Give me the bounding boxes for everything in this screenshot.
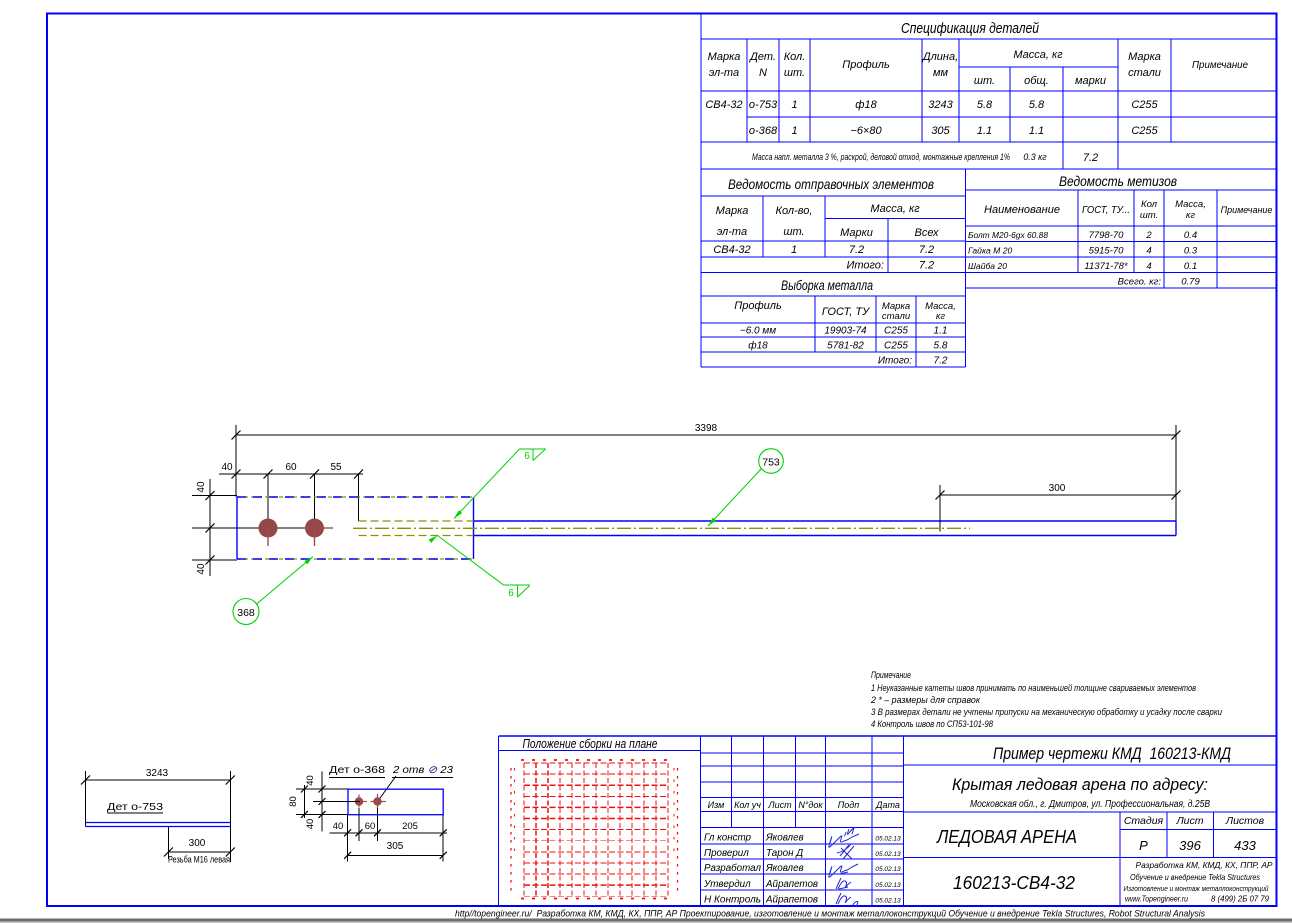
svg-text:−6×80: −6×80	[850, 125, 882, 137]
svg-text:Болт М20-6gх 60.88: Болт М20-6gх 60.88	[968, 230, 1048, 240]
svg-text:5781-82: 5781-82	[827, 341, 864, 352]
svg-text:Примечание: Примечание	[1192, 59, 1248, 71]
svg-text:7798-70: 7798-70	[1089, 230, 1125, 241]
svg-text:эл-та: эл-та	[709, 67, 739, 79]
svg-text:3398: 3398	[695, 423, 718, 434]
bolt hole 1 (main view)	[259, 519, 278, 547]
svg-text:433: 433	[1234, 838, 1256, 853]
svg-text:−6.0 мм: −6.0 мм	[740, 326, 776, 337]
svg-text:Тарон Д: Тарон Д	[766, 848, 803, 859]
title block: project titles	[936, 744, 1231, 893]
svg-text:Масса, кг: Масса, кг	[1013, 49, 1063, 61]
svg-text:www.Topengineer.ru: www.Topengineer.ru	[1125, 895, 1188, 904]
svg-text:Профиль: Профиль	[842, 59, 890, 71]
svg-text:6: 6	[508, 588, 514, 599]
svg-text:4: 4	[1146, 246, 1151, 257]
svg-text:Н Контроль: Н Контроль	[704, 895, 761, 906]
svg-text:40: 40	[221, 462, 233, 473]
svg-text:Утвердил: Утвердил	[703, 879, 751, 890]
title block: signatures	[829, 828, 859, 907]
bolt hole 2 (main view)	[305, 519, 333, 547]
svg-text:7.2: 7.2	[934, 356, 948, 367]
rod o-753 hidden lines inside plate	[359, 521, 474, 536]
red framing plan grid	[511, 760, 678, 899]
svg-text:5.8: 5.8	[1029, 99, 1045, 111]
svg-text:305: 305	[387, 841, 404, 852]
svg-text:Марка: Марка	[1128, 51, 1161, 63]
svg-text:0.3: 0.3	[1184, 246, 1198, 257]
svg-text:6: 6	[524, 451, 530, 462]
svg-text:40: 40	[305, 819, 316, 830]
svg-text:Профиль: Профиль	[734, 300, 782, 312]
svg-text:3243: 3243	[928, 99, 953, 111]
svg-text:Дет.: Дет.	[748, 51, 776, 63]
svg-text:1.1: 1.1	[1029, 125, 1044, 137]
svg-text:Р: Р	[1139, 838, 1148, 853]
title block: company info	[1124, 860, 1273, 904]
svg-text:1.1: 1.1	[977, 125, 992, 137]
svg-text:Масса, кг: Масса, кг	[870, 203, 920, 215]
svg-text:4: 4	[1146, 261, 1151, 272]
svg-text:Наименование: Наименование	[984, 204, 1060, 216]
svg-text:0.4: 0.4	[1184, 230, 1197, 241]
title block grid	[499, 736, 1277, 906]
detail o-368: hole 2	[371, 794, 387, 808]
detail o-368: holes note 2 отв 23	[378, 764, 454, 802]
detail o-368: label	[329, 764, 385, 778]
svg-text:эл-та: эл-та	[717, 226, 747, 238]
svg-text:N: N	[759, 67, 767, 79]
svg-text:40: 40	[196, 481, 207, 493]
svg-text:Длина,: Длина,	[921, 51, 958, 63]
detail o-368: dimension 80 and 40/40	[288, 771, 360, 831]
detail o-753: label	[107, 801, 163, 813]
center line of rod	[353, 527, 970, 529]
detail o-753: dimension 300 thread	[164, 827, 235, 859]
detail o-368: hole 1	[354, 795, 367, 808]
svg-text:Дет о-753: Дет о-753	[107, 801, 163, 813]
notes text	[870, 670, 1222, 729]
svg-text:Шайба 20: Шайба 20	[968, 261, 1007, 271]
svg-text:Гайка М 20: Гайка М 20	[968, 246, 1012, 256]
svg-text:Кол-во,: Кол-во,	[776, 205, 813, 217]
svg-text:шт.: шт.	[974, 75, 995, 87]
svg-text:стали: стали	[882, 311, 911, 322]
svg-text:40: 40	[333, 821, 344, 832]
svg-text:Гл констр: Гл констр	[704, 833, 752, 844]
svg-text:160213-СВ4-32: 160213-СВ4-32	[953, 872, 1076, 893]
svg-text:ГОСТ, ТУ...: ГОСТ, ТУ...	[1082, 204, 1130, 216]
svg-text:Резьба М16 левая: Резьба М16 левая	[168, 855, 230, 866]
svg-text:Дет о-368: Дет о-368	[329, 764, 385, 776]
svg-text:С255: С255	[1131, 99, 1158, 111]
svg-text:Итого:: Итого:	[878, 356, 912, 367]
position balloon 368	[233, 557, 313, 625]
svg-text:0.1: 0.1	[1184, 261, 1197, 272]
svg-text:стали: стали	[1128, 67, 1161, 79]
svg-text:2: 2	[1145, 230, 1152, 241]
svg-text:Кол: Кол	[1141, 199, 1158, 210]
svg-text:Всего. кг:: Всего. кг:	[1118, 277, 1162, 288]
svg-text:кг: кг	[936, 311, 945, 322]
svg-text:мм: мм	[933, 67, 949, 79]
svg-text:60: 60	[285, 462, 297, 473]
svg-text:Ведомость отправочных элементо: Ведомость отправочных элементов	[728, 176, 934, 192]
table: Выборка металла text	[734, 278, 956, 367]
detail o-368: plate outline	[348, 789, 443, 815]
svg-text:Примечание: Примечание	[871, 670, 911, 680]
title block: signature rows	[703, 833, 901, 906]
svg-text:2 отв ⊘ 23: 2 отв ⊘ 23	[392, 764, 453, 776]
svg-text:300: 300	[1049, 483, 1066, 494]
svg-text:5915-70: 5915-70	[1089, 246, 1125, 257]
svg-text:1 Неуказанные катеты швов при: 1 Неуказанные катеты швов принимать по н…	[871, 683, 1196, 693]
svg-text:11371-78*: 11371-78*	[1084, 261, 1127, 272]
svg-text:Айрапетов: Айрапетов	[765, 879, 818, 890]
svg-text:205: 205	[402, 821, 418, 832]
table: Выборка металла grid	[701, 296, 966, 367]
svg-text:Разработал: Разработал	[704, 863, 761, 874]
svg-text:05.02.13: 05.02.13	[875, 836, 901, 843]
svg-text:7.2: 7.2	[849, 244, 864, 256]
svg-text:7.2: 7.2	[1083, 152, 1098, 164]
svg-text:Крытая ледовая арена по адресу: Крытая ледовая арена по адресу:	[952, 775, 1208, 794]
table: Ведомость отправочных элементов text	[713, 176, 939, 272]
svg-text:Положение сборки на плане: Положение сборки на плане	[523, 737, 658, 751]
plate o-368 outline (main view)	[237, 497, 474, 559]
svg-text:7.2: 7.2	[919, 244, 934, 256]
svg-text:Айрапетов: Айрапетов	[765, 895, 818, 906]
svg-text:0.79: 0.79	[1181, 277, 1200, 288]
svg-text:Подп: Подп	[838, 800, 860, 810]
svg-text:Проверил: Проверил	[704, 848, 749, 859]
position balloon 753	[708, 449, 783, 526]
rod o-753 solid outline	[474, 521, 1177, 536]
svg-text:о-368: о-368	[749, 125, 778, 137]
svg-text:300: 300	[189, 838, 206, 849]
svg-text:3243: 3243	[146, 768, 169, 779]
svg-text:Выборка металла: Выборка металла	[781, 278, 873, 293]
svg-text:2 * – размеры для справок: 2 * – размеры для справок	[870, 695, 981, 705]
svg-text:общ.: общ.	[1024, 75, 1049, 87]
svg-text:ГОСТ, ТУ: ГОСТ, ТУ	[822, 306, 870, 318]
svg-text:4 Контроль швов по СП53-101-9: 4 Контроль швов по СП53-101-98	[871, 719, 993, 729]
svg-text:ф18: ф18	[748, 340, 768, 352]
table: Ведомость метизов text	[968, 173, 1272, 288]
svg-text:Кол уч: Кол уч	[734, 800, 761, 810]
svg-text:шт.: шт.	[1140, 210, 1158, 221]
title block: стадия лист листов	[1124, 815, 1265, 853]
table: Спецификация деталей grid	[701, 14, 1277, 170]
svg-text:Изготовление и монтаж металло: Изготовление и монтаж металлоконструкций	[1124, 884, 1270, 893]
svg-text:0.3 кг: 0.3 кг	[1023, 152, 1047, 162]
svg-text:Ведомость метизов: Ведомость метизов	[1059, 173, 1177, 189]
svg-text:СВ4-32: СВ4-32	[713, 244, 750, 256]
detail o-753: dimension 3243	[81, 768, 235, 862]
svg-text:Обучение и внедрение Tekla St: Обучение и внедрение Tekla Structures	[1130, 873, 1260, 882]
title block: изм header row	[708, 800, 900, 810]
svg-text:8 (499) 2Б 07 79: 8 (499) 2Б 07 79	[1211, 895, 1269, 904]
svg-text:60: 60	[365, 821, 376, 832]
svg-text:05.02.13: 05.02.13	[875, 851, 901, 858]
svg-text:Яковлев: Яковлев	[765, 863, 804, 874]
svg-text:05.02.13: 05.02.13	[875, 898, 901, 905]
svg-text:кг: кг	[1186, 210, 1195, 221]
svg-text:Итого:: Итого:	[846, 260, 884, 272]
svg-text:40: 40	[196, 563, 207, 575]
svg-text:С255: С255	[1131, 125, 1158, 137]
svg-text:Московская обл., г. Дмитров, у: Московская обл., г. Дмитров, ул. Професс…	[970, 799, 1210, 810]
svg-text:Дата: Дата	[875, 800, 900, 810]
svg-text:Листов: Листов	[1225, 815, 1265, 827]
box: Положение сборки на плане	[499, 736, 701, 906]
svg-text:Кол.: Кол.	[784, 51, 806, 63]
svg-text:1: 1	[791, 99, 797, 111]
dimension 300 thread length	[936, 483, 1181, 532]
dimension 40 40 plate height	[192, 479, 315, 576]
detail o-753: rod outline	[86, 823, 231, 827]
svg-text:С255: С255	[884, 341, 908, 352]
svg-text:05.02.13: 05.02.13	[875, 866, 901, 873]
svg-text:7.2: 7.2	[919, 260, 934, 272]
svg-text:Пример чертежи КМД 160213-КМД: Пример чертежи КМД 160213-КМД	[993, 744, 1231, 763]
weld symbol lower, leg 6	[429, 536, 530, 600]
svg-text:Марка: Марка	[708, 51, 741, 63]
svg-text:3 В размерах детали не учтены: 3 В размерах детали не учтены припуски н…	[871, 707, 1222, 717]
table: Ведомость отправочных элементов grid	[701, 169, 966, 367]
svg-text:Спецификация деталей: Спецификация деталей	[901, 20, 1040, 37]
svg-text:Всех: Всех	[915, 227, 939, 239]
svg-text:1.1: 1.1	[934, 326, 948, 337]
svg-text:80: 80	[288, 796, 299, 807]
svg-text:5.8: 5.8	[934, 341, 948, 352]
svg-text:Разработка КМ, КМД, КХ, ППР, А: Разработка КМ, КМД, КХ, ППР, АР	[1136, 860, 1273, 870]
svg-text:ф18: ф18	[855, 99, 877, 111]
svg-text:55: 55	[330, 462, 342, 473]
svg-text:1: 1	[791, 125, 797, 137]
svg-text:368: 368	[237, 607, 255, 619]
svg-text:753: 753	[762, 457, 780, 469]
svg-text:шт.: шт.	[783, 226, 804, 238]
detail o-368: dimension 305	[344, 841, 447, 859]
svg-text:http//topengineer.ru/ Разрабо: http//topengineer.ru/ Разработка КМ, КМД…	[455, 909, 1205, 919]
bottom window bar	[0, 919, 1292, 923]
svg-text:396: 396	[1179, 838, 1201, 853]
footer text	[455, 909, 1205, 919]
svg-text:305: 305	[931, 125, 950, 137]
weld symbol upper, leg 6	[454, 449, 546, 519]
svg-text:Примечание: Примечание	[1221, 205, 1273, 215]
svg-text:Лист: Лист	[1175, 815, 1203, 827]
dimension 3398 overall	[232, 423, 1181, 521]
table: Спецификация деталей text	[705, 20, 1248, 164]
svg-text:С255: С255	[884, 326, 908, 337]
svg-text:19903-74: 19903-74	[824, 326, 867, 337]
svg-text:марки: марки	[1075, 75, 1106, 87]
svg-text:05.02.13: 05.02.13	[875, 882, 901, 889]
detail o-368: dimension 40 60 205	[329, 808, 447, 862]
svg-text:N°док: N°док	[798, 800, 823, 810]
svg-text:о-753: о-753	[749, 99, 778, 111]
svg-text:Стадия: Стадия	[1124, 815, 1164, 827]
svg-text:Яковлев: Яковлев	[765, 833, 804, 844]
svg-text:ЛЕДОВАЯ АРЕНА: ЛЕДОВАЯ АРЕНА	[936, 826, 1077, 847]
svg-text:Марка: Марка	[716, 205, 749, 217]
dimension 40 60 55 hole spacing	[219, 462, 363, 528]
svg-text:5.8: 5.8	[977, 99, 993, 111]
detail o-753: thread note	[168, 855, 230, 866]
svg-text:1: 1	[791, 244, 797, 256]
svg-text:Масса напл. металла 3 %, раскр: Масса напл. металла 3 %, раскрой, делово…	[752, 152, 1010, 162]
svg-text:Лист: Лист	[767, 800, 792, 810]
svg-text:40: 40	[305, 775, 316, 786]
svg-text:Масса,: Масса,	[1175, 199, 1206, 210]
table: Ведомость метизов grid	[966, 169, 1277, 288]
svg-text:СВ4-32: СВ4-32	[705, 99, 742, 111]
svg-text:Марки: Марки	[840, 227, 873, 239]
svg-text:Изм: Изм	[708, 800, 725, 810]
svg-text:шт.: шт.	[784, 67, 805, 79]
